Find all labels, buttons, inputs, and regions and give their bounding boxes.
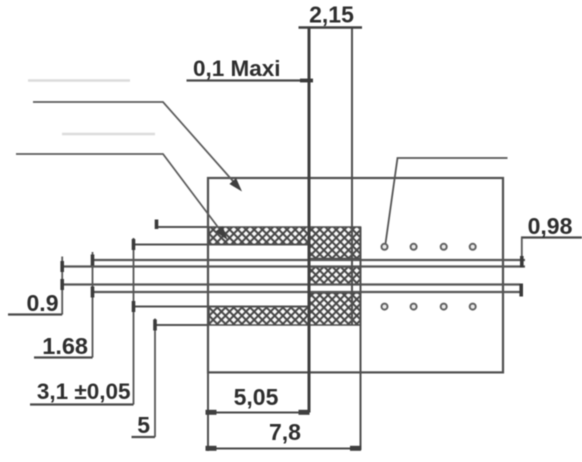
- svg-text:0,1 Maxi: 0,1 Maxi: [193, 56, 281, 81]
- svg-text:5: 5: [137, 412, 150, 438]
- svg-text:0,98: 0,98: [528, 213, 573, 239]
- svg-text:2,15: 2,15: [309, 2, 354, 28]
- svg-text:3,1 ±0,05: 3,1 ±0,05: [37, 379, 131, 404]
- svg-text:7,8: 7,8: [269, 419, 301, 445]
- svg-text:0.9: 0.9: [27, 290, 59, 316]
- svg-text:5,05: 5,05: [234, 384, 279, 410]
- svg-text:1.68: 1.68: [42, 333, 88, 359]
